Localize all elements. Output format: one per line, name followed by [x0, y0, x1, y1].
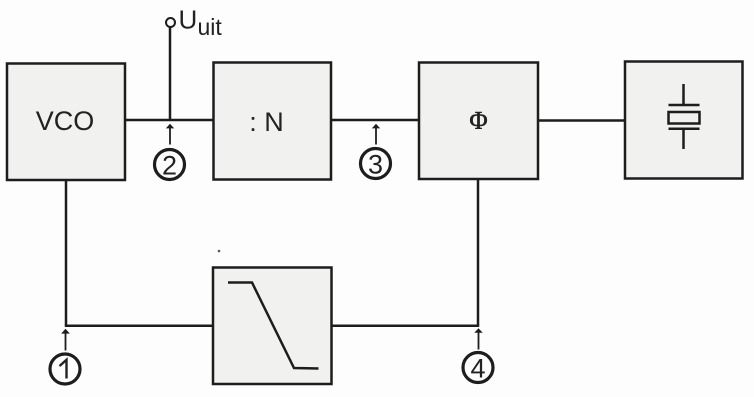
node 3: [361, 149, 391, 180]
arrow node 1: [61, 329, 70, 351]
arrow node 4: [474, 328, 482, 349]
block phase detector: [419, 63, 538, 180]
svg-text:VCO: VCO: [36, 106, 95, 136]
block loop filter: [213, 268, 332, 385]
low-pass response symbol: [228, 283, 319, 369]
label Uuit: [179, 5, 223, 41]
svg-text:: N: : N: [249, 107, 284, 137]
svg-text:4: 4: [470, 354, 485, 384]
svg-text:Φ: Φ: [469, 108, 487, 135]
svg-text:2: 2: [162, 151, 177, 181]
node 2: [155, 150, 185, 181]
crystal X1 symbol: [669, 84, 700, 149]
arrow node 3: [372, 124, 380, 145]
wire phase detector bottom down: [477, 179, 480, 326]
block VCO: [7, 64, 125, 181]
svg-text:U: U: [179, 5, 198, 35]
node 1: [50, 354, 80, 384]
wire filter to node 4: [332, 324, 480, 327]
wire Uuit terminal tap: [169, 27, 172, 120]
wire divider to phase detector: [331, 119, 419, 122]
block divider :N: [214, 63, 332, 180]
node 4: [463, 353, 493, 384]
wire bottom left to filter: [65, 324, 213, 327]
arrow node 2: [166, 124, 174, 145]
block crystal oscillator: [625, 62, 743, 179]
wire VCO bottom down: [65, 180, 68, 326]
wire VCO output to divider: [125, 119, 214, 122]
svg-text:3: 3: [368, 150, 383, 180]
wire phase detector to crystal oscillator: [538, 119, 625, 122]
svg-text:uit: uit: [198, 14, 223, 40]
terminal Uuit: [166, 18, 175, 27]
